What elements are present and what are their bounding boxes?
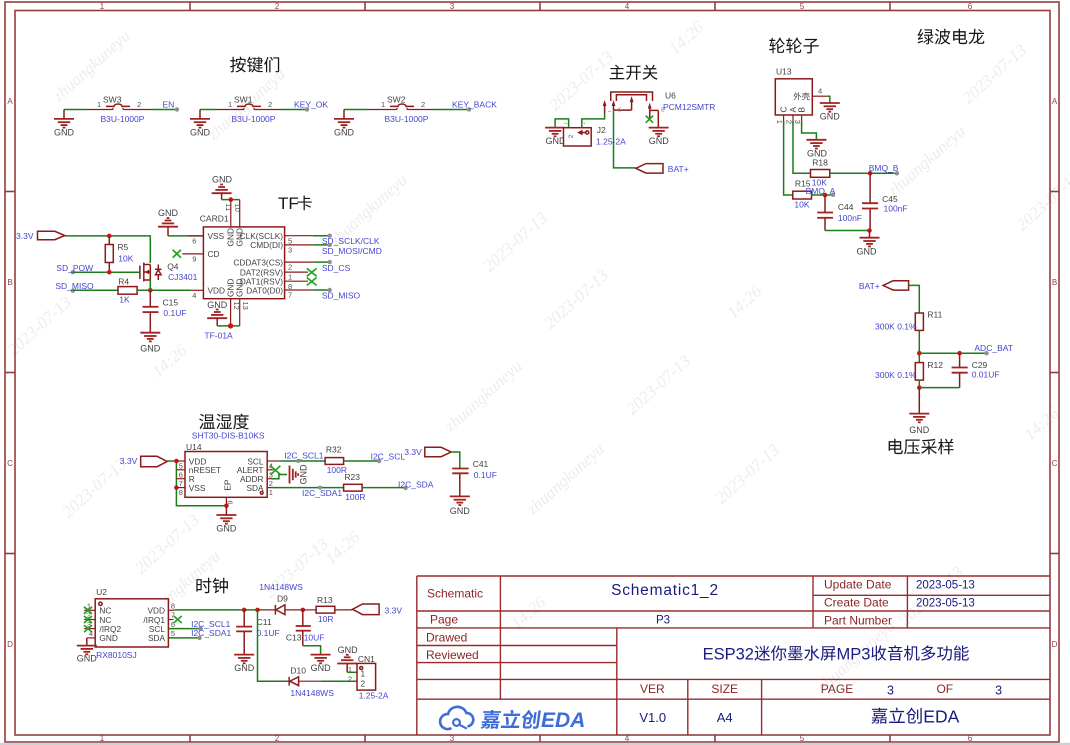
svg-text:2A: 2A <box>617 107 622 113</box>
svg-text:SD_MISO: SD_MISO <box>322 290 361 300</box>
wire Q4 drain <box>149 280 151 290</box>
junction C29 top <box>957 351 962 356</box>
net label BMQ_B <box>869 163 899 176</box>
svg-text:PCM12SMTR: PCM12SMTR <box>663 102 715 112</box>
svg-text:2: 2 <box>361 679 366 689</box>
junction R5 top <box>107 234 112 239</box>
no-connect X on DAT2 <box>307 268 317 276</box>
wire D10 to CN1 <box>321 680 357 682</box>
svg-text:MP3: MP3 <box>837 645 871 663</box>
ground GND (wheel) <box>857 231 880 257</box>
wire pin2 <box>313 261 330 263</box>
no-connect X on DAT1 <box>307 278 317 286</box>
net label KEY_OK <box>294 100 328 112</box>
svg-text:U14: U14 <box>186 442 202 452</box>
wire U6 to BAT+ <box>614 110 636 168</box>
svg-text:3.3V: 3.3V <box>404 447 422 457</box>
wire R23 to I2C_SDA <box>362 487 405 489</box>
ground GND (J2) <box>545 128 566 146</box>
svg-text:D: D <box>7 640 13 649</box>
logo 嘉立创EDA <box>440 707 585 732</box>
svg-text:SW3: SW3 <box>103 94 122 104</box>
svg-text:3: 3 <box>995 684 1002 698</box>
svg-text:B3U-1000P: B3U-1000P <box>101 114 145 124</box>
section title 绿波电龙 <box>918 29 985 45</box>
svg-text:12: 12 <box>232 302 241 310</box>
net label SD_POW <box>56 263 93 274</box>
svg-text:C: C <box>1052 459 1058 468</box>
svg-text:Schematic1_2: Schematic1_2 <box>611 582 719 599</box>
svg-text:GND: GND <box>909 425 930 435</box>
svg-text:B3U-1000P: B3U-1000P <box>385 114 429 124</box>
junction Q4 drain <box>148 288 153 293</box>
junction C13 <box>301 608 306 613</box>
wire ADDR to GND <box>272 475 288 479</box>
wire SW3 right <box>150 109 177 111</box>
junction BMQ_A <box>823 193 828 198</box>
svg-text:R23: R23 <box>344 472 360 482</box>
svg-text:SD_CS: SD_CS <box>322 263 351 273</box>
svg-text:A: A <box>7 97 13 106</box>
ground GND (U14 EP) <box>216 506 237 534</box>
wire 3.3V to C41 <box>451 452 460 468</box>
section title 时钟 <box>196 578 228 594</box>
wire SDA <box>168 637 201 639</box>
svg-text:SHT30-DIS-B10KS: SHT30-DIS-B10KS <box>192 431 265 441</box>
wire C13 to GND <box>303 646 321 655</box>
wire GND to CN1 pin1 <box>347 671 357 673</box>
svg-text:7: 7 <box>171 611 175 620</box>
svg-text:10K: 10K <box>118 254 133 264</box>
junction pin11 <box>229 197 234 202</box>
svg-text:TF: TF <box>278 194 299 213</box>
svg-text:2: 2 <box>137 100 141 109</box>
svg-text:4: 4 <box>192 291 196 300</box>
svg-text:GND: GND <box>338 645 359 655</box>
svg-text:D: D <box>1052 640 1058 649</box>
ground GND (SW3) <box>54 110 75 138</box>
wire U14 left rail <box>176 461 226 506</box>
junction VSS <box>174 485 179 490</box>
svg-text:Page: Page <box>430 613 458 627</box>
svg-text:I2C_SDA: I2C_SDA <box>398 480 434 490</box>
svg-text:0.1UF: 0.1UF <box>163 308 186 318</box>
svg-text:GND: GND <box>99 633 117 643</box>
svg-text:1K: 1K <box>119 295 130 305</box>
svg-text:GND: GND <box>857 247 878 257</box>
svg-text:Q4: Q4 <box>167 262 179 272</box>
svg-text:GND: GND <box>299 464 309 485</box>
title block values <box>611 580 1002 727</box>
wire pin7 <box>313 289 330 291</box>
svg-text:GND: GND <box>77 654 98 664</box>
ground GND (divider) <box>909 388 930 435</box>
svg-text:B3U-1000P: B3U-1000P <box>232 114 276 124</box>
no-connect X on ALERT <box>271 466 281 475</box>
svg-text:C29: C29 <box>972 360 988 370</box>
svg-text:BMQ_A: BMQ_A <box>806 186 836 196</box>
svg-text:2: 2 <box>784 120 793 124</box>
no-connect X on U6 pin <box>646 116 653 123</box>
svg-text:SW2: SW2 <box>387 94 406 104</box>
svg-text:I2C_SDA1: I2C_SDA1 <box>191 628 231 638</box>
svg-text:C15: C15 <box>163 298 179 308</box>
svg-text:5: 5 <box>179 462 183 471</box>
net label EN <box>163 100 180 112</box>
svg-text:B: B <box>7 278 12 287</box>
svg-text:CARD1: CARD1 <box>200 214 229 224</box>
svg-text:GND: GND <box>234 663 255 673</box>
wire SW1 right <box>281 109 307 111</box>
svg-text:100R: 100R <box>345 492 365 502</box>
svg-text:Reviewed: Reviewed <box>426 648 479 662</box>
svg-text:DAT0(D0): DAT0(D0) <box>246 285 283 295</box>
resistor R23 <box>344 472 366 502</box>
transistor Q4 <box>140 262 198 283</box>
svg-text:VSS: VSS <box>189 483 206 493</box>
svg-text:4: 4 <box>625 734 630 743</box>
wire to ADC_BAT <box>919 352 986 354</box>
junction EP <box>224 504 229 509</box>
svg-text:R5: R5 <box>117 242 128 252</box>
no-connect X on U2 pin7 <box>174 616 182 623</box>
junction R5 bottom <box>107 270 112 275</box>
junction C11 <box>242 608 247 613</box>
svg-text:GND: GND <box>216 524 237 534</box>
svg-text:KEY_BACK: KEY_BACK <box>452 100 497 110</box>
wire bottom to C29 <box>919 387 959 389</box>
svg-text:Schematic: Schematic <box>427 587 483 601</box>
svg-text:SDA: SDA <box>148 633 166 643</box>
title block labels <box>426 578 953 697</box>
wire SDA to R23 <box>272 487 344 489</box>
svg-text:2023-05-13: 2023-05-13 <box>916 580 975 592</box>
wire SCL to R32 <box>279 460 325 462</box>
svg-text:EDA: EDA <box>923 706 959 726</box>
svg-text:4: 4 <box>818 87 822 96</box>
wire top GND to pins 11,10 <box>222 199 240 201</box>
resistor R18 <box>811 158 830 188</box>
svg-text:7: 7 <box>288 291 292 300</box>
wire U13 pin3 to GND <box>802 121 817 139</box>
connector J2 <box>563 122 626 147</box>
svg-text:1N4148WS: 1N4148WS <box>290 688 334 698</box>
svg-text:100nF: 100nF <box>838 213 862 223</box>
svg-text:2: 2 <box>568 134 575 138</box>
wire SW1 left <box>200 109 217 111</box>
section title 按键们 <box>230 57 279 73</box>
ground GND (CN1, flipped) <box>337 645 358 672</box>
svg-text:R12: R12 <box>927 360 943 370</box>
svg-text:2: 2 <box>275 734 280 743</box>
wire J2 to GND <box>555 119 569 128</box>
svg-text:BAT+: BAT+ <box>859 281 880 291</box>
net label ADC_BAT <box>974 343 1013 355</box>
net label I2C_SDA <box>398 480 434 491</box>
svg-text:0.1UF: 0.1UF <box>474 470 497 480</box>
svg-text:3.3V: 3.3V <box>16 231 34 241</box>
resistor R5 <box>105 236 133 272</box>
svg-text:R32: R32 <box>326 445 342 455</box>
junction bottom divider <box>917 385 922 390</box>
connector CN1 <box>348 654 389 700</box>
svg-text:10R: 10R <box>318 614 334 624</box>
svg-text:B: B <box>1052 278 1057 287</box>
wire R12 bottom to C29 <box>918 380 920 388</box>
net label I2C_SCL <box>371 452 406 464</box>
svg-text:OF: OF <box>936 682 953 696</box>
svg-text:V1.0: V1.0 <box>639 710 666 725</box>
net label I2C_SCL1 (U2) <box>191 619 230 631</box>
capacitor C45 <box>862 173 908 230</box>
switch SW2 <box>370 94 433 124</box>
svg-text:GND: GND <box>54 128 75 138</box>
svg-text:9: 9 <box>225 500 234 504</box>
svg-text:GND: GND <box>311 663 332 673</box>
svg-text:9: 9 <box>192 255 196 264</box>
port BAT+ (voltage divider) <box>859 281 909 291</box>
svg-text:EN: EN <box>163 100 175 110</box>
wire GND to VSS <box>168 235 203 237</box>
svg-text:GND: GND <box>212 175 233 185</box>
svg-text:1: 1 <box>288 273 292 282</box>
svg-text:3.3V: 3.3V <box>120 456 138 466</box>
no-connect X on U2 pin1 <box>84 607 92 614</box>
wire branch to D10 <box>258 610 289 681</box>
port BAT+ <box>636 164 689 174</box>
svg-text:3: 3 <box>450 2 455 11</box>
TF card CARD1 <box>182 200 312 326</box>
svg-text:3: 3 <box>288 246 292 255</box>
capacitor C13 <box>286 610 325 646</box>
wire R15 to BMQ_A <box>812 194 834 196</box>
capacitor C29 <box>952 353 1000 387</box>
junction D10 branch <box>255 608 260 613</box>
port 3.3V (R13) <box>353 604 403 616</box>
svg-text:I2C_SCL1: I2C_SCL1 <box>284 451 323 461</box>
svg-text:D10: D10 <box>290 666 306 676</box>
capacitor C11 <box>236 610 280 654</box>
ground GND (C41) <box>450 496 471 516</box>
svg-text:6: 6 <box>192 237 196 246</box>
net label SD_MISO (right) <box>322 288 361 301</box>
svg-text:C11: C11 <box>257 617 272 627</box>
net label SD_CS <box>322 260 351 273</box>
svg-text:R11: R11 <box>927 310 942 320</box>
svg-text:GND: GND <box>190 128 211 138</box>
junction BMQ_B <box>868 171 873 176</box>
svg-text:1: 1 <box>228 100 232 109</box>
svg-text:100nF: 100nF <box>884 204 908 214</box>
title block <box>417 576 1050 735</box>
svg-text:6: 6 <box>171 620 175 629</box>
svg-text:C45: C45 <box>882 194 898 204</box>
svg-text:1: 1 <box>381 100 385 109</box>
capacitor C44 <box>817 195 862 231</box>
ground GND (SW2) <box>334 110 355 138</box>
svg-text:C44: C44 <box>838 202 854 212</box>
wire R32 to I2C_SCL <box>344 460 380 462</box>
wire U13 pin4 to GND <box>827 96 830 102</box>
no-connect X on U2 pin2 <box>84 616 92 623</box>
ground GND (U13 pin3) <box>806 140 827 159</box>
svg-text:SW1: SW1 <box>234 94 253 104</box>
svg-text:I2C_SDA1: I2C_SDA1 <box>302 488 342 498</box>
sensor U14 <box>176 442 279 506</box>
net label SD_MOSI/CMD <box>322 243 382 256</box>
wire pin5 <box>313 235 330 237</box>
resistor R13 <box>303 595 353 624</box>
svg-text:Part Number: Part Number <box>824 614 892 628</box>
net label I2C_SDA1 <box>302 486 342 498</box>
section title 轮轮子 <box>769 38 819 54</box>
svg-text:6: 6 <box>968 2 973 11</box>
svg-text:8: 8 <box>179 488 183 497</box>
junction bottom <box>867 228 872 233</box>
svg-text:J2: J2 <box>597 125 606 135</box>
svg-text:VDD: VDD <box>208 286 226 296</box>
svg-text:U13: U13 <box>776 67 792 77</box>
wire pin3 <box>313 244 330 246</box>
svg-text:2: 2 <box>348 674 352 683</box>
wire BAT+ to R11 <box>909 285 920 313</box>
resistor R32 <box>325 445 347 475</box>
wire VDD rail <box>174 609 257 611</box>
net label I2C_SDA1 (U2) <box>191 628 231 640</box>
svg-text:GND: GND <box>140 344 161 354</box>
svg-text:1: 1 <box>348 665 352 674</box>
wire SCL <box>168 628 203 630</box>
wire R11 to R12 <box>918 330 920 362</box>
svg-text:2: 2 <box>421 100 425 109</box>
svg-text:Drawed: Drawed <box>426 631 467 645</box>
section title 主开关 <box>610 65 658 80</box>
svg-text:5: 5 <box>288 236 292 245</box>
ground GND (C15) <box>140 333 161 354</box>
ground GND (U13 pin4) <box>820 103 841 122</box>
switch SW1 <box>217 94 281 124</box>
wire R18 to BMQ_B <box>830 172 897 174</box>
svg-text:1: 1 <box>269 488 273 497</box>
port 3.3V (C41) <box>404 447 451 457</box>
svg-text:R13: R13 <box>317 595 333 605</box>
ground GND (U2 pin4) <box>77 638 98 664</box>
svg-text:2: 2 <box>288 263 292 272</box>
svg-text:PAGE: PAGE <box>821 682 853 696</box>
svg-text:1: 1 <box>361 669 366 679</box>
svg-text:2: 2 <box>275 2 280 11</box>
svg-text:GND: GND <box>820 112 841 122</box>
ground GND (ADDR, rotated) <box>290 464 309 485</box>
arrow pin to J2 <box>603 100 607 114</box>
ground GND (CARD1 VSS, flipped) <box>158 208 179 236</box>
svg-text:Create Date: Create Date <box>824 596 889 610</box>
net label KEY_BACK <box>452 100 497 112</box>
svg-text:VER: VER <box>640 682 665 696</box>
svg-text:13: 13 <box>241 302 250 310</box>
svg-text:CJ3401: CJ3401 <box>168 272 198 282</box>
section title 温湿度 <box>199 414 249 430</box>
svg-text:GND: GND <box>207 300 228 310</box>
svg-text:3: 3 <box>887 684 894 698</box>
svg-text:SIZE: SIZE <box>711 682 738 696</box>
svg-text:D9: D9 <box>277 593 288 603</box>
ground GND (CARD1 top, flipped) <box>212 175 233 200</box>
wire bottom GND to pins 12,13 <box>217 325 240 327</box>
svg-text:CDDAT3(CS): CDDAT3(CS) <box>233 257 283 267</box>
net label I2C_SCL1 <box>284 451 323 464</box>
wire SW2 left <box>344 109 370 111</box>
svg-text:1: 1 <box>100 734 105 743</box>
svg-text:TF-01A: TF-01A <box>204 331 233 341</box>
svg-text:EDA: EDA <box>541 709 585 732</box>
svg-text:C: C <box>7 459 13 468</box>
svg-text:300K 0.1%: 300K 0.1% <box>875 322 917 332</box>
svg-text:R18: R18 <box>812 158 828 168</box>
diode D9 <box>258 582 304 615</box>
svg-text:R4: R4 <box>118 277 129 287</box>
wire C44/C45 bottom <box>825 230 870 232</box>
resistor R11 <box>875 310 943 332</box>
svg-text:SD_MISO: SD_MISO <box>55 281 94 291</box>
wire SW2 right <box>433 109 469 111</box>
svg-text:5: 5 <box>800 2 805 11</box>
wire 3.3V to U14 <box>167 460 176 462</box>
svg-text:3: 3 <box>450 734 455 743</box>
wire U13 pin1 to R15 <box>784 121 793 195</box>
svg-text:11: 11 <box>224 204 233 212</box>
no-connect X on U2 pin3 <box>84 625 92 632</box>
svg-text:A: A <box>1052 97 1058 106</box>
svg-text:P3: P3 <box>656 615 670 627</box>
svg-text:3.3V: 3.3V <box>385 606 403 616</box>
svg-text:A4: A4 <box>717 710 733 725</box>
junction VDD <box>174 459 179 464</box>
svg-text:SD_MOSI/CMD: SD_MOSI/CMD <box>322 246 382 256</box>
svg-text:0.01UF: 0.01UF <box>972 370 1000 380</box>
svg-text:2: 2 <box>268 100 272 109</box>
svg-text:4: 4 <box>625 2 630 11</box>
svg-text:1.25-2A: 1.25-2A <box>359 690 389 700</box>
wire 3.3V rail <box>65 236 151 263</box>
svg-text:Update Date: Update Date <box>824 578 892 592</box>
svg-text:C41: C41 <box>473 459 489 469</box>
svg-text:5: 5 <box>800 734 805 743</box>
svg-text:VSS: VSS <box>208 231 225 241</box>
diode D10 <box>289 666 334 698</box>
wire J2 to U6 <box>582 114 605 128</box>
encoder U13 <box>775 67 827 126</box>
resistor R4 <box>118 277 137 305</box>
net label SD_SCLK/CLK <box>322 234 380 247</box>
wire R4 to VDD pin <box>137 289 191 291</box>
svg-text:10UF: 10UF <box>304 633 325 643</box>
port 3.3V (U14) <box>120 456 167 467</box>
RTC U2 <box>84 587 175 647</box>
svg-text:10: 10 <box>233 204 242 212</box>
svg-text:10K: 10K <box>794 200 809 210</box>
svg-text:BMQ_B: BMQ_B <box>869 163 899 173</box>
svg-text:BAT+: BAT+ <box>668 164 689 174</box>
svg-text:1: 1 <box>775 120 784 124</box>
ground GND (C11) <box>234 655 255 673</box>
net label SD_MISO <box>55 281 94 293</box>
wire SD_POW to Q4 gate <box>73 271 140 273</box>
svg-text:CN1: CN1 <box>358 654 375 664</box>
svg-text:1: 1 <box>97 100 101 109</box>
wire SD_MISO to R4 <box>73 289 118 291</box>
resistor R15 <box>793 179 812 210</box>
